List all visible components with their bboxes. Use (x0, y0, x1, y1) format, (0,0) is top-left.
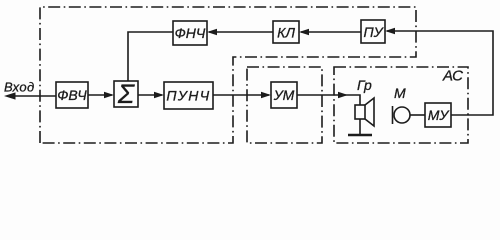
loudspeaker Gr horn (365, 98, 374, 126)
svg-text:МУ: МУ (428, 107, 451, 123)
dash-dot group border: main unit (L-shaped) (40, 7, 416, 143)
wire Vhod output arrow line (13, 95, 56, 97)
block PU (361, 20, 385, 43)
loudspeaker Gr driver square (355, 105, 365, 119)
arrowhead into PU (points left) (385, 28, 395, 34)
block PUNCh (164, 82, 213, 109)
arrowhead Vhod (points left) (4, 92, 16, 99)
arrowhead into UM (261, 92, 271, 98)
block MU (microphone amplifier) (425, 103, 451, 127)
svg-text:ПУ: ПУ (363, 24, 384, 40)
wire PUNCh to UM (213, 94, 269, 96)
svg-text:М: М (394, 85, 406, 101)
wire FVCh to Sigma (88, 94, 112, 96)
ground bar (348, 134, 372, 137)
svg-text:КЛ: КЛ (277, 25, 295, 41)
dash-dot group border: UM power amp unit (247, 67, 322, 143)
wire FNCh feedback down to Sigma (128, 32, 173, 81)
loudspeaker ground stem (359, 119, 361, 134)
block Sigma (adder) (114, 81, 138, 107)
svg-text:ФНЧ: ФНЧ (175, 25, 206, 41)
arrowhead into KL (points left) (299, 29, 309, 35)
wire UM to speaker (297, 95, 360, 105)
arrowhead into speaker (338, 92, 348, 98)
microphone membrane bar (392, 106, 394, 124)
wire PU to KL (301, 31, 361, 33)
svg-text:Вход: Вход (4, 80, 35, 95)
block KL (273, 21, 299, 43)
wire microphone to MU (410, 114, 425, 116)
microphone M circle (394, 107, 410, 123)
block FVCh (high-pass filter) (56, 82, 88, 108)
wire Sigma to PUNCh (138, 94, 162, 96)
svg-text:ФВЧ: ФВЧ (57, 87, 87, 103)
block UM (power amplifier) (271, 82, 297, 108)
wire KL to FNCh (209, 31, 273, 33)
svg-text:Гр: Гр (357, 77, 372, 93)
wire MU up and left to PU (387, 31, 493, 115)
arrowhead into Sigma (104, 92, 114, 98)
dash-dot group border: AC loudspeaker unit (334, 67, 468, 143)
arrowhead into PUNCh (154, 92, 164, 98)
arrowhead into FNCh (points left) (207, 29, 217, 35)
svg-text:УМ: УМ (273, 87, 295, 103)
svg-text:Σ: Σ (117, 79, 135, 109)
svg-text:АС: АС (442, 68, 463, 85)
svg-text:ПУНЧ: ПУНЧ (166, 88, 210, 104)
block FNCh (low-pass filter) (173, 21, 207, 45)
